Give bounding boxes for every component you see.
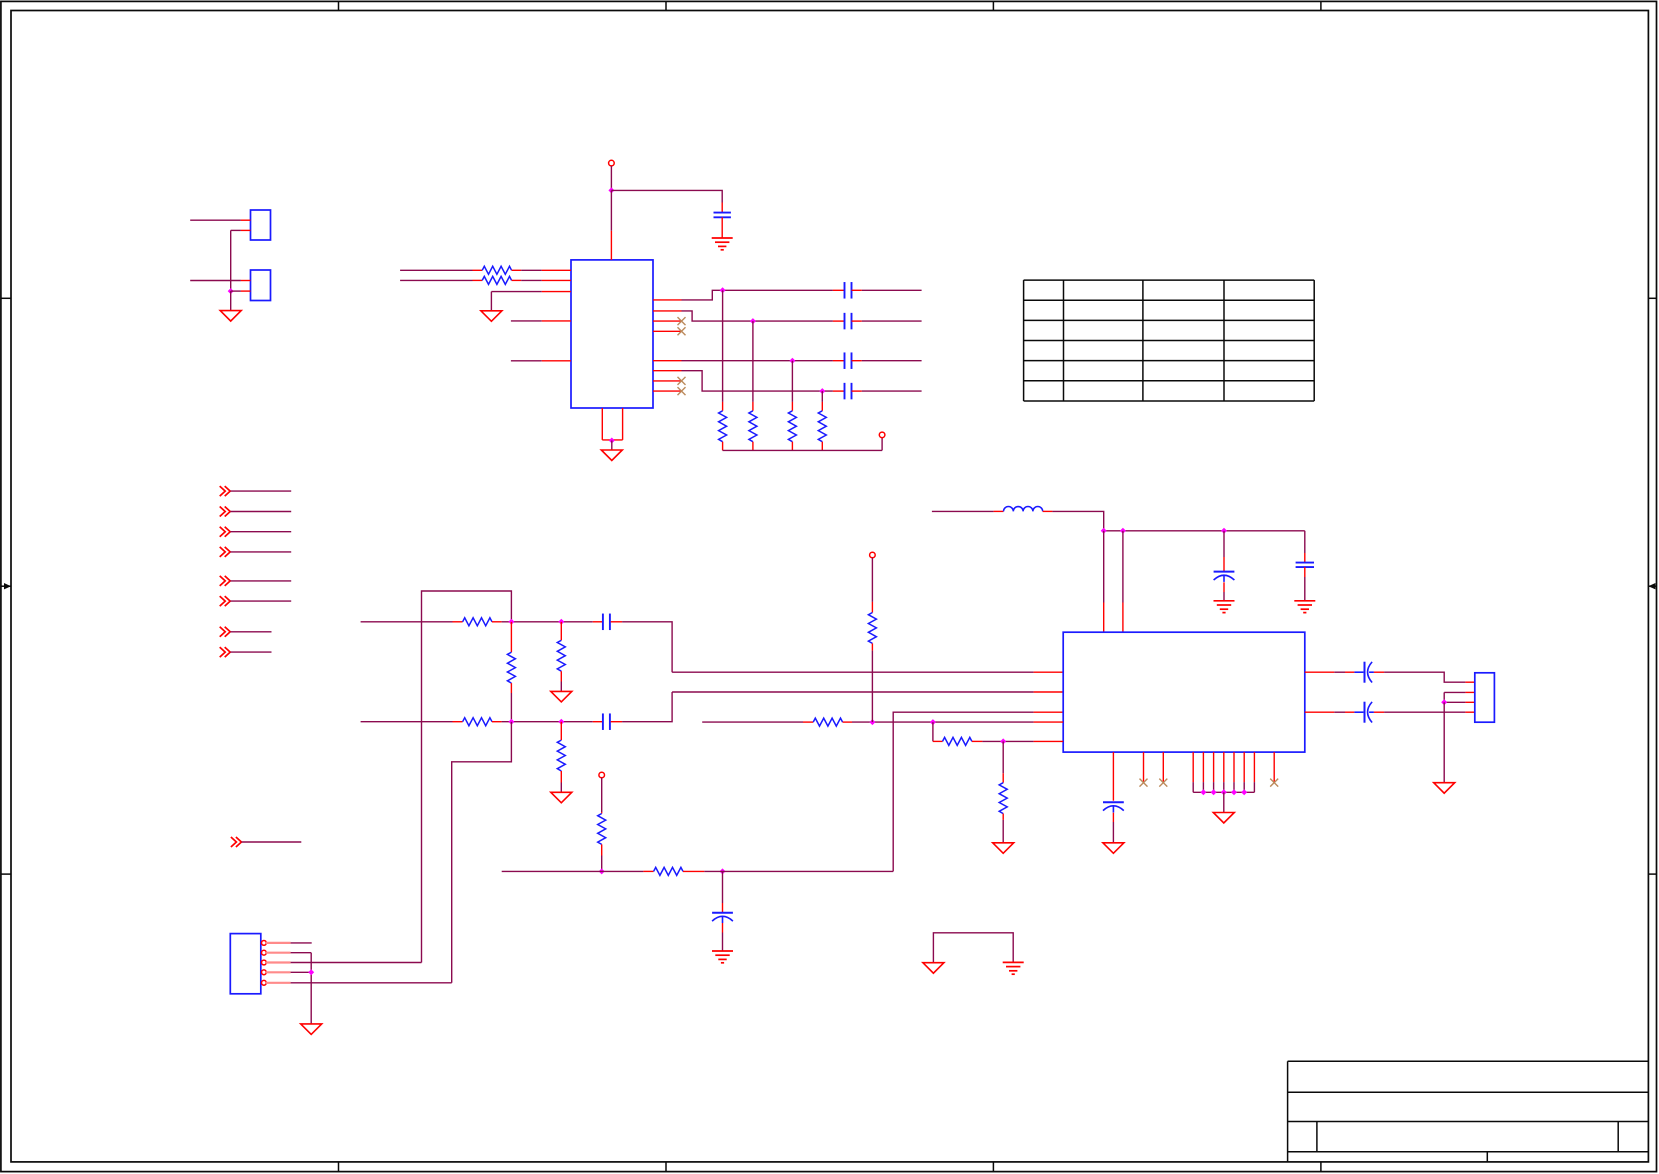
wire C10 to ground bbox=[1304, 567, 1306, 601]
ground GND5 bbox=[551, 792, 572, 803]
node C7 junction bbox=[558, 719, 564, 725]
resistor R1 bbox=[482, 266, 511, 274]
wire dropper R11 bbox=[560, 722, 562, 740]
connector pad B2 bbox=[251, 270, 271, 301]
wire U1 pin4 bbox=[511, 320, 571, 322]
no-connect X U2 pinB11 bbox=[1273, 752, 1275, 782]
wire J1 pin1 stub bbox=[291, 942, 312, 944]
node RC junction bbox=[720, 868, 726, 874]
wire node to ground bbox=[1443, 702, 1445, 782]
capacitor C9 polarized bbox=[1214, 572, 1235, 582]
title block bbox=[1288, 1061, 1649, 1162]
wire R15 to node F bbox=[871, 643, 873, 722]
wire net D bbox=[682, 371, 845, 391]
wire R8 top stub bbox=[510, 622, 512, 652]
wire R6 to bus bbox=[821, 442, 823, 451]
wire C13 to J2 pin4 bbox=[1374, 711, 1475, 713]
node A junction bbox=[720, 287, 726, 293]
capacitor C5 bbox=[845, 383, 852, 400]
node R10 junction bbox=[508, 719, 514, 725]
port P6 bbox=[220, 596, 231, 606]
node G junction bbox=[1000, 738, 1006, 744]
node U1 gnd junction bbox=[609, 438, 615, 444]
terminal circle bias bbox=[599, 772, 605, 778]
wire R16 to U2 pin L5 bbox=[972, 740, 1063, 742]
wire to B1 pin1 bbox=[190, 219, 250, 221]
inductor L1 bbox=[1004, 506, 1043, 511]
op IC U1 bbox=[571, 260, 653, 408]
wire net A bbox=[682, 290, 845, 300]
wire J1 pin2 to ground rail bbox=[291, 953, 312, 1024]
wire R13 to node bbox=[683, 870, 704, 872]
wire net E to U2 pin L3 bbox=[704, 712, 1063, 871]
wire to U2 pin L1 bbox=[672, 671, 1063, 673]
terminal circle micbias bbox=[870, 552, 876, 558]
wire loop bottom to J1 pin5 bbox=[452, 722, 512, 983]
wire VDD rail bbox=[1104, 530, 1305, 532]
wire U1 pin5 bbox=[511, 360, 571, 362]
ground GND8 bbox=[1213, 813, 1234, 824]
wire C9 to ground bbox=[1223, 582, 1225, 601]
resistor R5 bbox=[788, 411, 796, 442]
wire dropper A bbox=[722, 290, 724, 411]
wire circle to junction bbox=[610, 166, 612, 190]
wire R5 to bus bbox=[791, 442, 793, 451]
wire net F bbox=[702, 721, 813, 723]
wire circle to R12 bbox=[601, 778, 603, 814]
wire R11 to ground bbox=[560, 771, 562, 792]
wire comb bus bbox=[1193, 791, 1254, 793]
wire to ground GND3 bbox=[611, 441, 613, 451]
wire R7 to node bbox=[492, 621, 593, 623]
node C6 junction bbox=[558, 619, 564, 625]
wire R3 to bus bbox=[722, 442, 724, 451]
wire ground bridge bbox=[933, 933, 1013, 963]
right border center arrow bbox=[1648, 583, 1656, 589]
wire R10 to node bbox=[492, 721, 593, 723]
ground GND4 bbox=[551, 691, 572, 702]
wire U1 pin3 to ground bbox=[491, 292, 571, 311]
revision table bbox=[1024, 280, 1315, 401]
left border center arrow bbox=[1, 583, 11, 589]
wire R8 bottom bbox=[510, 683, 512, 722]
x mark B2 bbox=[1140, 779, 1148, 787]
wire node to ground bbox=[230, 291, 232, 311]
node R7 junction bbox=[508, 619, 514, 625]
no-connect X pin6 bbox=[678, 317, 686, 325]
wire J1 pin3 net bbox=[291, 962, 422, 964]
wire node to C8 bbox=[722, 871, 724, 912]
wire port P1 bbox=[230, 490, 291, 492]
wire J1 pin4 to node bbox=[291, 971, 312, 973]
node D junction bbox=[819, 388, 825, 394]
wire port P8 bbox=[230, 651, 271, 653]
J1 pin leads bbox=[266, 943, 291, 983]
wire net E left bbox=[502, 870, 654, 872]
wire dropper B bbox=[752, 321, 754, 411]
x mark B3 bbox=[1159, 779, 1167, 787]
capacitor C11 polarized bbox=[1103, 802, 1124, 812]
wire net C bbox=[682, 360, 845, 362]
capacitor C2 bbox=[845, 282, 852, 299]
wire U2 to C11 bbox=[1112, 752, 1114, 801]
port P4 bbox=[220, 547, 231, 557]
wire to U2 pin L2 bbox=[672, 691, 1063, 693]
wire node to B2 pin2 bbox=[231, 290, 251, 292]
ground GND9 bbox=[1434, 783, 1455, 794]
wire C2 right bbox=[852, 289, 922, 291]
wire dropper R9 bbox=[560, 622, 562, 641]
wire rail to U2 top pin1 bbox=[1103, 531, 1105, 632]
node F junction 2 bbox=[930, 719, 936, 725]
wire C1 to ground bbox=[721, 217, 723, 238]
header connector J1 bbox=[230, 934, 260, 994]
no-connect X U2 pinB3 bbox=[1162, 752, 1164, 782]
earth ground E5 bbox=[1003, 962, 1024, 974]
wire U2 pin R1 to C12 bbox=[1305, 671, 1355, 673]
capacitor C8 polarized bbox=[712, 913, 733, 923]
wire node G to R17 bbox=[1002, 741, 1004, 782]
no-connect X pin7 bbox=[678, 327, 686, 335]
port P9 bbox=[231, 837, 242, 847]
wire rail to C9 bbox=[1223, 531, 1225, 572]
resistor R15 bbox=[868, 613, 876, 644]
ground GND10 bbox=[301, 1024, 322, 1035]
node rail junction 1 bbox=[1101, 528, 1107, 534]
node J2 junction bbox=[1441, 699, 1447, 705]
earth ground E3 bbox=[1214, 601, 1235, 613]
port P7 bbox=[220, 627, 231, 637]
ground GND6 bbox=[993, 843, 1014, 854]
resistor R3 bbox=[719, 411, 727, 442]
wire R9 to ground bbox=[560, 671, 562, 691]
no-connect X pin10 bbox=[678, 377, 686, 385]
wire R2 to U1 bbox=[512, 279, 571, 281]
capacitor C3 bbox=[845, 313, 852, 330]
resistor R2 bbox=[482, 276, 511, 284]
resistor R11 bbox=[557, 740, 565, 771]
wire C11 to ground bbox=[1112, 813, 1114, 843]
J1 pin circles bbox=[262, 941, 267, 986]
port P2 bbox=[220, 507, 231, 517]
resistor R8 bbox=[507, 652, 515, 683]
resistor R17 bbox=[999, 783, 1007, 814]
resistor R12 bbox=[598, 814, 606, 845]
wire R14 to U2 pin L4 bbox=[843, 721, 1064, 723]
node VCC1 junction bbox=[608, 187, 614, 193]
ground GND7 bbox=[1103, 843, 1124, 854]
ground GND1 bbox=[220, 311, 241, 322]
connector pad B1 bbox=[251, 210, 271, 240]
capacitor C13 polarized bbox=[1354, 702, 1374, 723]
capacitor C1 bbox=[714, 213, 731, 218]
U1 right pin stubs bbox=[653, 300, 682, 391]
wire C5 right bbox=[852, 390, 922, 392]
wire loop from J1 pin3 bbox=[422, 591, 512, 963]
wire dropper D bbox=[821, 391, 823, 411]
capacitor C4 bbox=[845, 352, 852, 369]
node J1 junction bbox=[308, 969, 314, 975]
wire to R2 bbox=[400, 279, 482, 281]
wire dropper C bbox=[791, 361, 793, 411]
wire to L1 bbox=[932, 510, 1004, 512]
wire to C7 bbox=[593, 721, 602, 723]
U1 bottom pins bbox=[602, 408, 622, 440]
wire port P3 bbox=[230, 531, 291, 533]
ground GND2 bbox=[481, 311, 502, 322]
capacitor C6 bbox=[603, 614, 610, 631]
wire port P6 bbox=[230, 600, 291, 602]
wire R1 to U1 bbox=[512, 269, 571, 271]
wire U2 pin R2 to C13 bbox=[1305, 711, 1355, 713]
resistor R14 bbox=[813, 718, 842, 726]
port P5 bbox=[220, 576, 231, 586]
resistor R7 bbox=[463, 618, 492, 626]
resistor R6 bbox=[818, 411, 826, 442]
wire bottom bus to terminal bbox=[723, 438, 883, 451]
x mark B11 bbox=[1270, 779, 1278, 787]
wire L1 to rail bbox=[1043, 511, 1104, 530]
resistor R9 bbox=[557, 640, 565, 671]
wire port P2 bbox=[230, 511, 291, 513]
wire junction to U1 pin top bbox=[610, 190, 612, 260]
wire R4 to bus bbox=[752, 442, 754, 451]
terminal circle VREF bbox=[879, 432, 885, 438]
wire net IN+ left bbox=[361, 621, 463, 623]
port P1 bbox=[220, 486, 231, 496]
wire R17 to ground bbox=[1002, 814, 1004, 843]
wire to C6 bbox=[593, 621, 602, 623]
wire to B2 pin1 bbox=[190, 280, 250, 282]
resistor R10 bbox=[463, 718, 492, 726]
node rail junction 2 bbox=[1120, 528, 1126, 534]
wire R12 to node bbox=[601, 844, 603, 871]
no-connect X pin11 bbox=[678, 387, 686, 395]
node C junction bbox=[789, 358, 795, 364]
wire C8 to ground bbox=[722, 923, 724, 951]
wire port P7 bbox=[230, 631, 271, 633]
port P3 bbox=[220, 527, 231, 537]
wire to R1 bbox=[400, 269, 482, 271]
power terminal circle bbox=[609, 160, 615, 166]
earth ground E2 bbox=[712, 951, 733, 963]
comb junction nodes bbox=[1200, 789, 1247, 795]
wire comb to ground bbox=[1223, 792, 1225, 812]
wire net IN- left bbox=[361, 721, 463, 723]
U2 ground comb pins bbox=[1193, 752, 1254, 792]
wire rail to U2 top pin2 bbox=[1122, 531, 1124, 632]
node B2 pin2 junction bbox=[228, 288, 234, 294]
ground GND3 bbox=[601, 450, 622, 461]
node F junction 1 bbox=[869, 719, 875, 725]
port P8 bbox=[220, 647, 231, 657]
wire C4 right bbox=[852, 360, 922, 362]
wire J1 pin5 net bbox=[291, 982, 452, 984]
wire port P4 bbox=[230, 551, 291, 553]
wire J2 pin3 to node bbox=[1444, 701, 1475, 703]
wire C7 to elbow bbox=[611, 692, 672, 722]
capacitor C7 bbox=[603, 713, 610, 730]
wire net B bbox=[682, 311, 845, 321]
wire port P9 bbox=[242, 841, 302, 843]
wire circle to R15 bbox=[871, 558, 873, 613]
wire J2 pin2 to node bbox=[1444, 692, 1475, 702]
wire C3 right bbox=[852, 320, 922, 322]
wire C6 to elbow bbox=[611, 622, 672, 672]
wire rail to C10 bbox=[1304, 531, 1306, 563]
earth ground E1 bbox=[712, 238, 733, 250]
wire B1 pin2 to node bbox=[231, 230, 251, 291]
jack connector J2 bbox=[1475, 673, 1495, 722]
capacitor C10 bbox=[1296, 563, 1314, 568]
resistor R16 bbox=[943, 737, 972, 745]
ground GND11 bbox=[923, 963, 944, 974]
codec IC U2 bbox=[1063, 632, 1305, 752]
wire junction to C1 bbox=[611, 190, 722, 212]
wire port P5 bbox=[230, 580, 291, 582]
earth ground E4 bbox=[1294, 601, 1315, 613]
wire C12 to J2 pin1 bbox=[1374, 672, 1475, 682]
resistor R4 bbox=[749, 411, 757, 442]
resistor R13 bbox=[654, 867, 683, 875]
node bias junction bbox=[599, 868, 605, 874]
node B junction bbox=[750, 318, 756, 324]
wire node F to R16 bbox=[933, 722, 943, 741]
capacitor C12 polarized bbox=[1354, 662, 1374, 683]
no-connect X U2 pinB2 bbox=[1143, 752, 1145, 782]
node rail junction 3 bbox=[1221, 528, 1227, 534]
